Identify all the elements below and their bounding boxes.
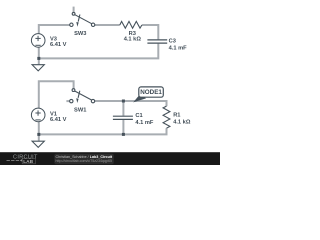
svg-text:6.41 V: 6.41 V bbox=[50, 42, 67, 48]
svg-text:4.1 kΩ: 4.1 kΩ bbox=[124, 36, 142, 42]
svg-text:http://circuitlab.com/c/75z234: http://circuitlab.com/c/75z234qqp65 bbox=[56, 159, 113, 163]
svg-text:4.1 mF: 4.1 mF bbox=[169, 45, 188, 51]
svg-text:SW3: SW3 bbox=[74, 31, 86, 37]
svg-text:C1: C1 bbox=[135, 113, 142, 119]
svg-text:R1: R1 bbox=[173, 112, 180, 118]
svg-text:C3: C3 bbox=[169, 39, 176, 45]
svg-text:4.1 mF: 4.1 mF bbox=[135, 120, 154, 126]
svg-text:6.41 V: 6.41 V bbox=[50, 117, 67, 123]
svg-text:NODE1: NODE1 bbox=[140, 89, 162, 96]
svg-text:LAB: LAB bbox=[23, 159, 33, 165]
svg-text:4.1 kΩ: 4.1 kΩ bbox=[173, 119, 191, 125]
svg-text:SW1: SW1 bbox=[74, 108, 86, 114]
